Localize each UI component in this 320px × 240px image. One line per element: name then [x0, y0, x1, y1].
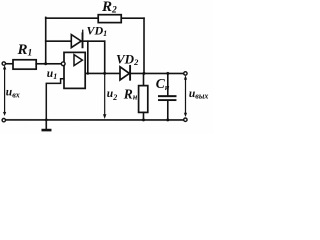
resistor R2	[98, 15, 121, 23]
wire Rn top lead	[142, 73, 144, 85]
uvx arrowhead up	[3, 65, 6, 69]
capacitor Cn bottom plate	[159, 99, 176, 101]
op-amp U1 triangle	[74, 55, 82, 66]
wire VD1 cathode to corner	[83, 40, 105, 42]
wire Cn bottom lead	[167, 101, 169, 120]
svg-text:R2: R2	[101, 0, 117, 15]
uvx arrowhead down	[3, 112, 6, 116]
u2 arrow line	[104, 73, 106, 114]
wire Rn bottom lead	[142, 112, 144, 120]
uvyx arrow line	[184, 78, 186, 114]
uvyx arrowhead up	[184, 75, 187, 79]
input terminal bottom	[2, 118, 5, 121]
wire vertical R2-left feedback down to output	[87, 41, 89, 73]
junction node Cn on output wire	[166, 72, 169, 75]
junction node at inverting input	[44, 62, 47, 65]
svg-text:uвых: uвых	[189, 88, 209, 101]
wire input from terminal to R1	[6, 63, 14, 65]
wire top rail left segment	[46, 17, 98, 19]
svg-text:VD1: VD1	[87, 23, 108, 38]
junction node feedback on output wire	[86, 72, 89, 75]
resistor Rn	[139, 86, 148, 113]
capacitor Cn top plate	[159, 95, 176, 97]
ground bar	[43, 129, 50, 132]
junction node ground on rail	[45, 118, 48, 121]
diode VD1 bar top tick	[82, 30, 84, 32]
uvx arrow line	[4, 68, 6, 113]
svg-text:Rн: Rн	[123, 86, 138, 101]
output terminal bottom	[184, 118, 187, 121]
junction node Cn on rail	[166, 118, 169, 121]
wire top rail right segment	[122, 17, 144, 19]
wire R1 to op-amp input	[36, 63, 61, 65]
junction node R2/Rn on output wire	[142, 72, 145, 75]
junction node Rn on rail	[142, 118, 145, 121]
ground stub	[45, 120, 47, 129]
op-amp U1 box	[64, 52, 85, 88]
svg-text:u1: u1	[47, 68, 57, 81]
svg-text:VD2: VD2	[116, 52, 139, 68]
svg-text:R1: R1	[17, 42, 33, 59]
svg-text:uвх: uвх	[6, 86, 20, 99]
diode VD2 cathode bar	[129, 66, 131, 80]
svg-text:u2: u2	[107, 88, 117, 102]
resistor R1	[13, 60, 36, 69]
wire non-inverting input to ground	[46, 79, 64, 120]
wire VD2 cathode to output terminal	[130, 72, 184, 74]
input terminal top	[2, 62, 5, 65]
wire vertical R2-right down to output node	[143, 18, 145, 73]
diode VD1 cathode bar	[82, 33, 84, 47]
wire vertical VD1 cathode down to output	[104, 41, 106, 73]
junction node u2 on output wire	[103, 72, 106, 75]
diode VD1 triangle	[71, 35, 81, 48]
wire bottom ground rail	[5, 119, 183, 121]
op-amp inverting input circle	[61, 62, 65, 66]
wire vertical from inverting node up to R2	[45, 17, 47, 64]
wire op-amp output	[86, 72, 120, 74]
diode VD2 triangle	[120, 67, 129, 80]
uvyx arrowhead down	[184, 113, 187, 117]
output terminal top	[184, 72, 187, 75]
wire VD1 anode from node	[46, 40, 72, 42]
u2 arrowhead down	[103, 114, 106, 119]
wire Cn top lead	[167, 73, 169, 95]
